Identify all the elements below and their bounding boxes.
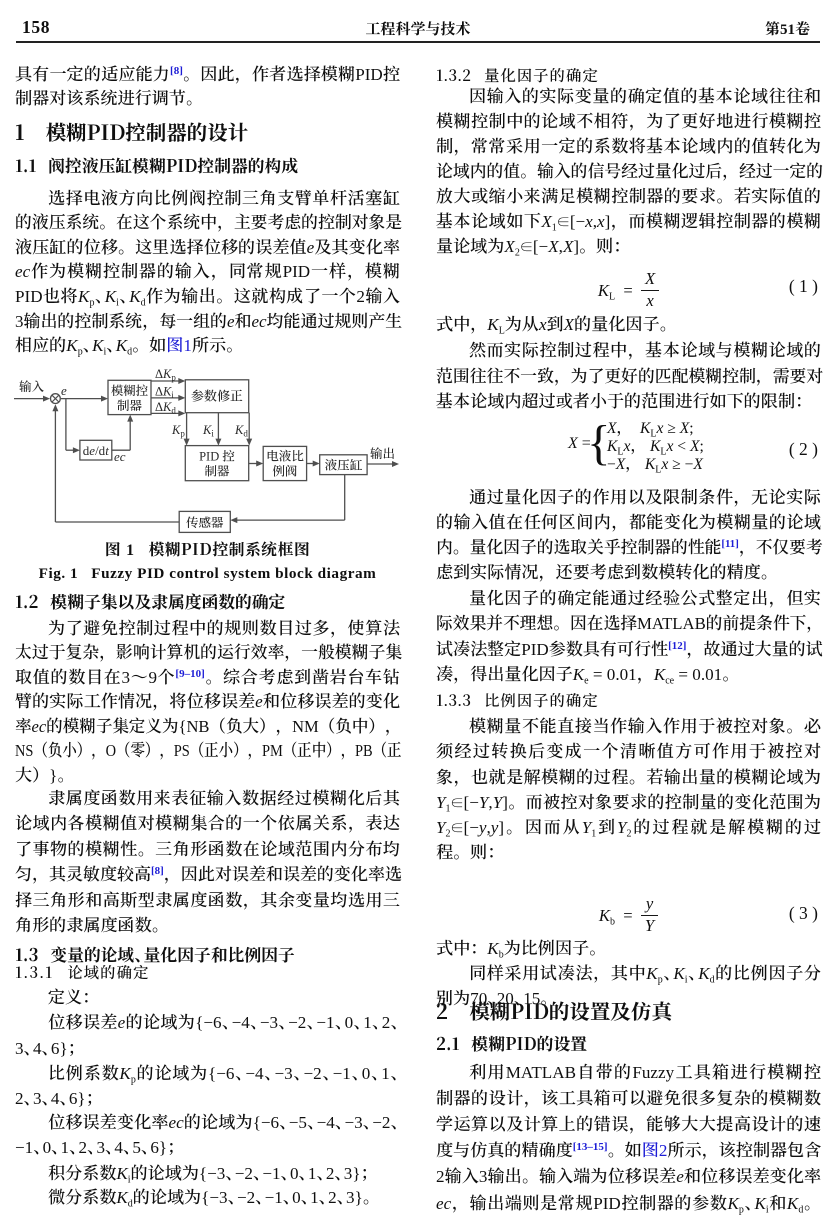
paragraph: universe of Kd <box>15 1185 400 1210</box>
paragraph: universe of Kp <box>15 1061 400 1111</box>
paragraph: limits intro <box>436 338 821 415</box>
paragraph 1.2 body a <box>15 617 400 789</box>
section heading 1 <box>15 118 400 144</box>
svg-text:ec: ec <box>114 449 126 464</box>
page header: volume <box>765 18 810 39</box>
heading 1.2 <box>15 589 400 613</box>
paragraph: universe of ec <box>15 1110 400 1160</box>
heading 1.3.1 <box>15 960 400 984</box>
wire valve to cylinder <box>307 463 318 465</box>
hydraulic cylinder box 液压缸 <box>320 455 367 475</box>
figure 1 caption (English) <box>15 565 400 583</box>
wire dKp <box>151 380 183 382</box>
figure 1 caption (Chinese) <box>15 537 400 560</box>
wire de/dt to fuzzy controller <box>112 449 130 451</box>
svg-text:Kp: Kp <box>171 423 185 439</box>
wire Kd down <box>248 413 250 444</box>
feedback wire into sensor <box>232 519 344 521</box>
paragraph: universe of e <box>15 1010 400 1060</box>
sensor box 传感器 <box>179 511 230 532</box>
svg-text:de/dt: de/dt <box>83 443 109 458</box>
output arrow <box>367 463 397 465</box>
heading 2.1 <box>436 1031 821 1055</box>
page header: page number <box>22 17 50 38</box>
parameter correction box 参数修正 <box>185 380 248 413</box>
paragraph 2.1 body <box>436 1060 821 1217</box>
svg-text:制器: 制器 <box>204 462 230 480</box>
svg-text:ΔKd: ΔKd <box>155 400 176 416</box>
heading 1.1 <box>15 153 400 177</box>
feedback wire down from cylinder <box>344 475 346 520</box>
wire dKi <box>151 397 183 399</box>
paragraph: universe of Ki <box>15 1161 400 1186</box>
paragraph 1.2 body b <box>15 786 400 939</box>
wire Kp down <box>186 413 188 444</box>
section heading 2 <box>436 997 821 1023</box>
paragraph 1.3.2 body <box>436 85 821 259</box>
wire Ki down <box>217 413 219 444</box>
wire junction to fuzzy controller <box>61 398 106 400</box>
svg-text:ΔKp: ΔKp <box>155 367 176 383</box>
svg-text:传感器: 传感器 <box>186 513 224 531</box>
paragraph: trial method <box>436 586 821 688</box>
svg-text:输出: 输出 <box>369 444 395 462</box>
wire PID to valve <box>249 463 262 465</box>
fuzzy controller box 模糊控制器 <box>108 380 151 414</box>
paragraph: scale factors values <box>436 962 821 1012</box>
equation (3) <box>436 898 821 936</box>
paragraph 1.3.3 body <box>436 714 821 865</box>
paragraph 1.1 body <box>15 187 400 359</box>
svg-text:Ki: Ki <box>202 423 214 439</box>
paragraph: formula 3 explanation <box>436 937 821 962</box>
page header: journal name <box>0 18 836 39</box>
svg-text:液压缸: 液压缸 <box>325 455 363 473</box>
PID controller box PID控制器 <box>185 446 248 481</box>
paragraph: definition label <box>15 986 400 1011</box>
heading 1.3.2 <box>436 63 821 87</box>
svg-text:参数修正: 参数修正 <box>191 386 244 405</box>
feedback wire sensor to junction <box>55 521 179 523</box>
paragraph: intro continuation <box>15 63 400 112</box>
equation (1) <box>436 273 821 311</box>
svg-text:Kd: Kd <box>234 423 248 439</box>
svg-text:输入: 输入 <box>18 377 45 395</box>
input arrow <box>14 398 48 400</box>
equation (2) with brace <box>436 419 821 421</box>
svg-text:例阀: 例阀 <box>272 462 297 480</box>
summing junction circle <box>51 394 61 404</box>
paragraph: quantization discussion <box>436 485 821 586</box>
wire dKd <box>151 412 183 414</box>
header rule <box>16 41 820 43</box>
svg-text:e: e <box>61 383 67 398</box>
svg-text:ΔKi: ΔKi <box>155 384 174 400</box>
heading 1.3 <box>15 942 400 966</box>
de/dt box <box>80 440 112 460</box>
electro-hydraulic valve box 电液比例阀 <box>263 446 306 480</box>
svg-text:制器: 制器 <box>117 396 143 414</box>
figure 1: fuzzy PID block diagram <box>10 366 410 538</box>
paragraph: formula 1 explanation <box>436 313 821 338</box>
heading 1.3.3 <box>436 688 821 712</box>
wire branch down to de/dt <box>65 399 67 451</box>
